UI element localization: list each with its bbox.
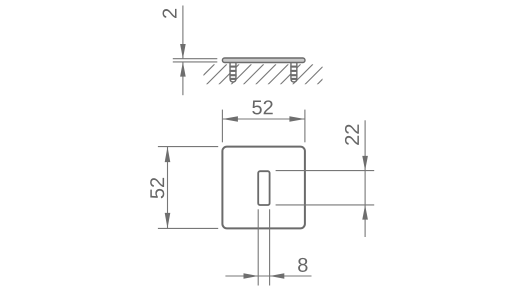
extension line top surface: [173, 58, 218, 60]
hatching (material section under plate): [194, 64, 337, 84]
arrowhead pointing right: [244, 273, 259, 279]
arrowhead pointing left: [222, 116, 238, 122]
extension line slot left: [257, 209, 259, 285]
label 52: [252, 100, 272, 114]
extension line slot bottom: [276, 204, 375, 206]
dimension line upper segment: [182, 6, 184, 59]
dimension 52 horizontal (top): [222, 100, 305, 142]
label 22: [345, 125, 359, 145]
extension line right: [304, 110, 306, 143]
extension line bottom surface: [173, 61, 218, 63]
arrowhead pointing right: [289, 116, 305, 122]
dimension 2 (plate thickness): [163, 6, 218, 96]
dimension line: [222, 118, 305, 120]
extension line slot top: [276, 170, 375, 172]
arrowhead pointing left: [270, 273, 285, 279]
arrowhead pointing up: [180, 62, 186, 77]
label 52: [150, 178, 164, 198]
dimension line: [225, 275, 311, 277]
slot opening (front view): [258, 171, 269, 205]
dimension line: [364, 120, 366, 237]
square cap face (front view): [222, 147, 305, 229]
label 2: [163, 9, 177, 18]
label 8: [298, 258, 307, 272]
left pin (side view, ribbed push-in pin): [229, 62, 236, 82]
dimension line lower segment: [182, 62, 184, 95]
cover plate (side view): [222, 58, 305, 63]
right pin (side view, ribbed push-in pin): [290, 62, 297, 82]
arrowhead pointing up: [165, 147, 171, 163]
dimension 22 (slot height, right): [276, 120, 375, 237]
arrowhead pointing up: [362, 205, 368, 220]
extension line bottom: [158, 227, 218, 229]
arrowhead pointing down: [180, 44, 186, 59]
dimension 52 vertical (left): [150, 147, 218, 229]
extension line top: [158, 146, 218, 148]
arrowhead pointing down: [362, 156, 368, 171]
arrowhead pointing down: [165, 213, 171, 229]
dimension 8 (slot width, bottom): [225, 209, 311, 285]
extension line left: [221, 110, 223, 143]
dimension line: [167, 147, 169, 229]
extension line slot right: [269, 209, 271, 285]
